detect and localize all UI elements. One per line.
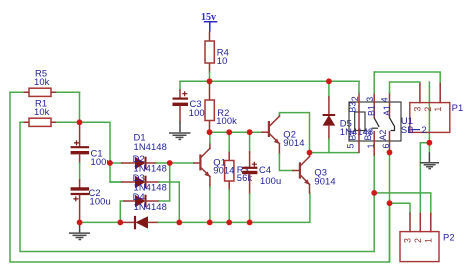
wire relay pin4 up and over to P1 pin3 (390, 82, 421, 93)
svg-text:1N4148: 1N4148 (134, 201, 167, 212)
svg-text:1N4148: 1N4148 (134, 141, 167, 152)
svg-text:9014: 9014 (314, 175, 335, 186)
node D5 top (326, 78, 332, 84)
relay pin 2 line (358, 93, 360, 152)
capacitor C3 (173, 81, 211, 121)
node Q2/Q3 collectors (307, 150, 313, 156)
diode D2 (110, 153, 179, 222)
svg-text:10: 10 (217, 55, 228, 66)
svg-text:2: 2 (422, 124, 427, 135)
node R3 bottom (226, 220, 232, 226)
ground under C2 (69, 222, 90, 239)
transistor Q3 (293, 153, 336, 193)
wire to P2 pin3 (390, 203, 411, 213)
svg-text:C4: C4 (259, 164, 271, 175)
left inner rail from R1 (20, 122, 374, 251)
svg-text:P1: P1 (452, 102, 464, 113)
svg-text:3: 3 (403, 238, 413, 243)
node D2 bottom (176, 220, 182, 226)
node D3 bottom (117, 220, 123, 226)
resistor R1 (20, 98, 80, 127)
capacitor C1 (71, 122, 112, 167)
svg-text:3: 3 (412, 107, 422, 112)
svg-text:10k: 10k (34, 106, 50, 117)
connector P2 (400, 214, 455, 262)
node P2 pin1 branch (371, 190, 377, 196)
svg-text:2: 2 (413, 238, 423, 243)
wire Q2 collector loop (279, 113, 309, 153)
svg-text:4: 4 (380, 97, 390, 102)
diode D1 (110, 131, 194, 169)
svg-text:100k: 100k (216, 115, 237, 126)
switch blade 1 (372, 118, 380, 129)
node ground near P1 (427, 140, 433, 146)
svg-text:A1: A1 (382, 105, 392, 116)
wire through P1 pin2 down to ground node (428, 82, 430, 143)
node C4 bottom (247, 220, 253, 226)
relay pin 4-6 line (389, 93, 391, 152)
svg-text:B3: B3 (348, 102, 358, 113)
resistor R3 (225, 132, 253, 222)
resistor R2 (205, 81, 237, 131)
svg-text:B4: B4 (348, 130, 358, 141)
junction dots layer (77, 78, 433, 225)
wire pin6 down (389, 152, 391, 262)
svg-text:5: 5 (346, 144, 356, 149)
svg-text:9014: 9014 (283, 137, 304, 148)
node R2 bottom (207, 129, 213, 135)
node R4/R2 junction (207, 78, 213, 84)
svg-text:10k: 10k (34, 76, 50, 87)
transistor Q1 (194, 132, 210, 222)
wire R5 right down to R1 junction (79, 92, 81, 122)
svg-text:1: 1 (366, 144, 376, 149)
svg-text:2: 2 (350, 96, 360, 101)
node R1/R5/C1 (77, 119, 83, 125)
node Q1 base junction (167, 160, 173, 166)
ground under C3 (169, 122, 191, 140)
wire relay pin3 up and over to P1 pin1 (374, 72, 440, 93)
wire to P2 pin1 (374, 193, 431, 214)
svg-text:P2: P2 (443, 232, 455, 243)
transistor Q2 (262, 115, 305, 155)
power 15v (201, 12, 217, 33)
wire main rail y=81 (180, 72, 359, 81)
coil (355, 112, 365, 131)
svg-text:100u: 100u (260, 175, 281, 186)
node Q1 emitter (207, 220, 213, 226)
svg-text:B1: B1 (367, 105, 377, 116)
wire collector node to relay pin5 (310, 152, 359, 154)
wire Q2 emitter to Q3 base (279, 154, 293, 171)
svg-text:A2: A2 (378, 130, 388, 141)
node C4 top (247, 129, 253, 135)
diode D4 (horizontal on ground rail) (120, 191, 167, 229)
resistor R4 (205, 32, 229, 72)
svg-text:6: 6 (381, 144, 391, 149)
resistor R5 (10, 68, 80, 97)
label Q1 overlay (213, 156, 234, 175)
ground near P1 (420, 143, 439, 169)
node D1 anode (107, 160, 113, 166)
relay U1 (346, 93, 402, 155)
diode D3 (120, 163, 169, 222)
switch blade 2 (389, 118, 394, 131)
left outer rail from R5 (10, 92, 390, 262)
ground rail wire (80, 193, 310, 222)
node C2/ground (77, 220, 83, 226)
wire rail to relay pin2 (358, 81, 360, 93)
wire ground node to P2 pin2 (420, 143, 429, 214)
svg-text:B2: B2 (363, 130, 373, 141)
wire base rail y=132 (210, 131, 263, 132)
svg-text:9014: 9014 (213, 165, 234, 176)
node R3 top (226, 129, 232, 135)
svg-text:3: 3 (365, 97, 375, 102)
wire R1 junction to rail x=110 (80, 122, 122, 182)
relay pin 1-3 line (373, 93, 375, 155)
svg-text:1: 1 (433, 107, 443, 112)
wire C1 to C2 (79, 163, 81, 180)
label U1 SB-2 (401, 115, 427, 135)
node relay pin6 (387, 150, 393, 156)
svg-text:1: 1 (423, 238, 433, 243)
svg-text:100u: 100u (90, 196, 111, 207)
diode D5 (323, 81, 374, 152)
capacitor C4 (242, 132, 281, 222)
capacitor C2 (71, 180, 111, 222)
connector P1 (410, 84, 463, 133)
svg-text:2: 2 (423, 107, 433, 112)
node P2 pin3 branch (387, 200, 393, 206)
